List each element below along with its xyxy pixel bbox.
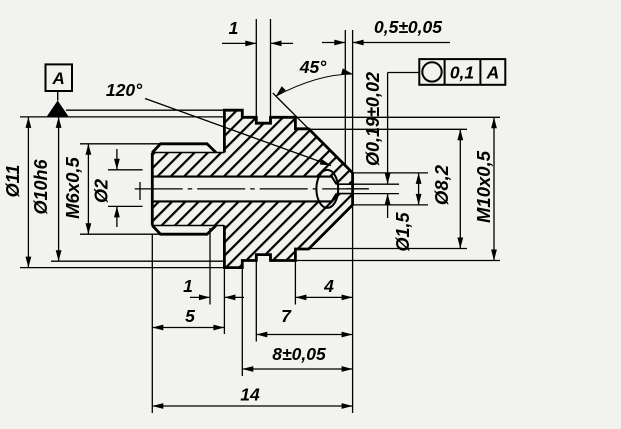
dim line Ø11 xyxy=(27,117,29,268)
ext line M10 top xyxy=(295,116,500,118)
svg-text:Ø8,2: Ø8,2 xyxy=(431,164,452,205)
svg-text:Ø10h6: Ø10h6 xyxy=(31,158,51,214)
svg-text:14: 14 xyxy=(240,385,260,405)
centerline stub at tip xyxy=(346,188,369,190)
120deg leader line xyxy=(145,99,331,166)
svg-text:7: 7 xyxy=(281,306,292,326)
45deg angle arc xyxy=(276,74,353,96)
M6 thread root line bottom xyxy=(152,225,224,227)
lower profile: flange, slot, undercut, 45deg cone xyxy=(224,205,352,268)
dim line 1 (undercut) right tail xyxy=(224,296,244,298)
dim line Ø10h6 xyxy=(58,117,60,261)
ext line Ø8,2 bottom xyxy=(309,248,467,250)
M6 thread crest + chamfer, bottom xyxy=(152,226,216,235)
Ø2 bore wall top + 120deg cone xyxy=(152,177,336,185)
svg-text:8±0,05: 8±0,05 xyxy=(272,344,326,364)
ext line Ø11 top xyxy=(66,109,224,111)
tip end face xyxy=(351,173,354,205)
ext line undercut left down xyxy=(209,228,211,305)
left end face xyxy=(151,153,154,226)
dim line 1 (undercut) left tail xyxy=(190,296,210,298)
leader to tolerance frame xyxy=(388,72,419,74)
dim line Ø2 upper tail xyxy=(116,149,118,170)
45deg chamfer extension line xyxy=(273,93,309,129)
ext line Ø8,2 top xyxy=(309,128,467,130)
dim line 5 xyxy=(152,327,224,329)
ext line flange left down xyxy=(223,268,225,334)
120deg leader arrowhead xyxy=(320,159,331,166)
section hatching lower half xyxy=(152,194,352,268)
tick on centerline at Ø2 xyxy=(139,182,141,200)
section hatching upper half xyxy=(152,110,352,184)
ext line Ø1,5 bottom xyxy=(353,204,428,206)
dim line 7 xyxy=(256,334,352,336)
svg-text:0,1: 0,1 xyxy=(450,63,474,83)
frame divider 1 xyxy=(444,59,446,85)
dim line 0,5 left tail xyxy=(322,42,345,44)
datum A triangle xyxy=(47,101,69,117)
datum stem xyxy=(57,91,59,101)
svg-text:Ø1,5: Ø1,5 xyxy=(393,212,413,252)
dim line 1 (slot) left tail xyxy=(222,42,256,44)
frame divider 2 xyxy=(479,59,481,85)
dim line M10x0,5 xyxy=(493,117,495,260)
svg-text:120°: 120° xyxy=(106,80,143,100)
ext line slot left up xyxy=(255,19,257,117)
dim line 4 xyxy=(295,296,352,298)
roundness symbol circle xyxy=(422,62,441,81)
svg-text:Ø11: Ø11 xyxy=(3,165,23,198)
svg-text:Ø0,19±0,02: Ø0,19±0,02 xyxy=(363,72,383,166)
dim line 14 xyxy=(152,405,352,407)
ext line flange right down xyxy=(241,268,243,376)
45deg arc arrow on vertical ext xyxy=(341,68,352,74)
ext line slot left down xyxy=(255,261,257,342)
ext line M6 bottom xyxy=(80,233,161,235)
svg-text:1: 1 xyxy=(183,276,193,296)
ext line slot right up xyxy=(270,19,272,117)
dim line 8±0,05 xyxy=(242,368,352,370)
dim line Ø8,2 xyxy=(459,129,461,248)
spherical cavity end (drawn as ellipse) xyxy=(316,170,338,208)
svg-text:4: 4 xyxy=(323,276,334,296)
Ø2 bore wall bottom + 120deg cone xyxy=(152,194,336,202)
ext line M10 bottom xyxy=(295,260,500,262)
svg-text:5: 5 xyxy=(185,306,195,326)
dim line Ø2 lower tail xyxy=(116,206,118,227)
part axis centerline xyxy=(135,188,369,190)
ext line right for 4/7/8/14 dims xyxy=(352,205,354,413)
ext line top common (Ø11/Ø10h6 arrows, datum) xyxy=(20,116,224,118)
ext line Ø10h6 bottom xyxy=(51,260,224,262)
dim line Ø0,19 upper xyxy=(387,73,389,185)
upper profile: flange, slot, undercut, 45deg cone xyxy=(224,110,352,173)
svg-text:45°: 45° xyxy=(299,57,327,77)
ext line 0,5 left (ends on cone edge) xyxy=(344,30,346,166)
ext line undercut step down xyxy=(294,261,296,305)
ext line 0,5 right upper xyxy=(352,30,354,173)
svg-text:M6x0,5: M6x0,5 xyxy=(62,156,83,218)
ext line Ø1,5 top xyxy=(353,172,428,174)
ext line Ø2 bottom xyxy=(108,205,143,207)
dim line 0,5 right tail xyxy=(353,42,450,44)
dim line Ø1,5 xyxy=(418,173,420,205)
Ø0,19 orifice wall bottom xyxy=(337,193,353,195)
dim line M6x0,5 xyxy=(87,144,89,234)
Ø0,19 orifice wall top xyxy=(337,183,353,185)
ext line left face down xyxy=(151,234,153,413)
ext line Ø0,19 bottom xyxy=(353,193,399,195)
ext line Ø0,19 top xyxy=(353,183,399,185)
svg-text:1: 1 xyxy=(229,18,239,38)
ext line M6 top xyxy=(80,143,161,145)
M6 thread root line top xyxy=(152,152,224,154)
M6 thread crest + chamfer, top xyxy=(152,144,216,153)
svg-text:A: A xyxy=(486,63,500,83)
45deg arc arrow on chamfer ext xyxy=(276,86,286,96)
dim line Ø0,19 lower xyxy=(387,194,389,218)
svg-text:Ø2: Ø2 xyxy=(92,179,112,203)
ext line Ø2 top xyxy=(108,169,143,171)
ext line Ø11 bottom xyxy=(20,267,224,269)
svg-text:0,5±0,05: 0,5±0,05 xyxy=(374,17,442,37)
dim line 1 (slot) right tail xyxy=(271,42,294,44)
svg-text:A: A xyxy=(52,69,65,88)
datum A frame box xyxy=(46,64,73,91)
svg-text:M10x0,5: M10x0,5 xyxy=(473,150,494,223)
tolerance frame xyxy=(419,59,505,85)
